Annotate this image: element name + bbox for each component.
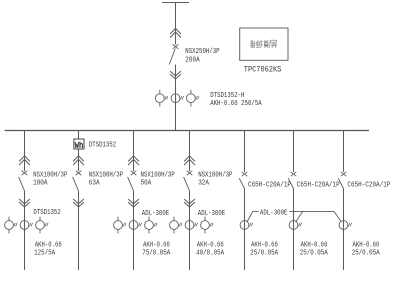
svg-text:C65H-C20A/1P: C65H-C20A/1P (347, 182, 390, 190)
svg-text:C65H-C20A/1P: C65H-C20A/1P (297, 182, 340, 190)
wire feeder lower (133, 191, 135, 270)
breaker blade (128, 177, 134, 191)
wire feeder drop x=189.5 upper (189, 130, 191, 171)
wire CT tap F7 (334, 211, 341, 221)
breaker blade (239, 178, 244, 188)
breaker contact cross (187, 171, 193, 175)
svg-text:NSX100H/3P: NSX100H/3P (141, 171, 176, 179)
svg-text:NSX100H/3P: NSX100H/3P (33, 171, 68, 179)
CT right (145, 221, 154, 230)
drawout contact upper (128, 156, 139, 162)
wire incomer upper (175, 3, 177, 45)
wire feeder lower (244, 189, 246, 271)
svg-text:NSX100H/3P: NSX100H/3P (89, 171, 124, 179)
svg-text:50A: 50A (141, 180, 152, 188)
svg-text:25/0.05A: 25/0.05A (250, 249, 278, 257)
wire feeder lower (78, 191, 80, 270)
svg-text:25/0.05A: 25/0.05A (300, 249, 328, 257)
drawout contact lower (128, 199, 139, 204)
CT right (incomer) (187, 94, 196, 103)
svg-text:ADL-300E: ADL-300E (260, 209, 288, 217)
svg-text:DTSD1352-H: DTSD1352-H (210, 92, 244, 100)
drawout contact upper (184, 156, 195, 162)
CT middle (incomer) (171, 94, 180, 103)
svg-text:200A: 200A (185, 56, 200, 64)
breaker contact cross (242, 172, 248, 176)
CT (289, 221, 298, 230)
node incoming supply terminal (162, 2, 189, 4)
wire feeder drop x=24.5 upper (24, 130, 26, 171)
CT (339, 221, 348, 230)
CT (240, 221, 249, 230)
svg-text:AKH-0.66: AKH-0.66 (143, 241, 170, 249)
svg-text:C65H-C20A/1P: C65H-C20A/1P (248, 182, 291, 190)
svg-text:25/0.05A: 25/0.05A (352, 249, 380, 257)
wire ADL meter link right (289, 210, 334, 212)
breaker contact cross (76, 171, 82, 175)
wire CT tap F5 (247, 211, 253, 222)
svg-text:AKH-0.66: AKH-0.66 (251, 241, 278, 249)
CT right (36, 221, 45, 230)
svg-text:100A: 100A (33, 180, 48, 188)
touch screen box (240, 28, 288, 60)
CT right (201, 221, 210, 230)
drawout contact upper (73, 156, 84, 162)
svg-text:ADL-300E: ADL-300E (142, 210, 170, 218)
svg-text:AKH-0.66: AKH-0.66 (197, 241, 224, 249)
CT middle (185, 221, 194, 230)
wire feeder lower (343, 189, 345, 271)
wire ADL meter link left (253, 210, 259, 212)
bus bar (5, 130, 369, 132)
wire feeder drop x=293.5 (293, 130, 295, 172)
breaker blade (184, 177, 190, 191)
breaker contact cross (291, 172, 297, 176)
drawout contact lower (incomer) (170, 71, 181, 76)
breaker blade (338, 178, 343, 188)
label touchscreen (CJK strokes) (251, 40, 277, 48)
CT left (114, 221, 123, 230)
CT left (5, 221, 14, 230)
energy meter icon DTSD1352 (74, 139, 84, 149)
breaker blade (19, 177, 25, 191)
svg-text:32A: 32A (198, 180, 209, 188)
wire feeder lower (24, 191, 26, 270)
CT left (170, 221, 179, 230)
svg-text:63A: 63A (89, 180, 100, 188)
breaker contact cross (341, 172, 347, 176)
svg-text:DTSD1352: DTSD1352 (33, 209, 60, 217)
wire feeder drop x=343.5 (343, 130, 345, 172)
breaker blade (288, 178, 293, 188)
svg-text:NSX100H/3P: NSX100H/3P (198, 171, 233, 179)
wire feeder drop x=78.5 upper (78, 130, 80, 171)
drawout contact lower (184, 199, 195, 204)
CT left (incomer) (155, 94, 164, 103)
drawout contact lower (19, 199, 30, 204)
CT middle (129, 221, 138, 230)
wire feeder drop x=244.5 (244, 130, 246, 172)
svg-text:75/0.05A: 75/0.05A (142, 249, 170, 257)
svg-text:AKH-0.66: AKH-0.66 (353, 241, 380, 249)
drawout contact upper (incomer) (170, 28, 181, 34)
breaker contact cross (131, 171, 137, 175)
svg-text:DTSD1352: DTSD1352 (89, 141, 116, 149)
svg-text:AKH-0.66: AKH-0.66 (301, 241, 328, 249)
breaker QF0 contact cross (173, 44, 179, 48)
wire feeder lower (293, 189, 295, 271)
wire feeder drop x=133.5 upper (133, 130, 135, 171)
svg-text:125/5A: 125/5A (34, 249, 55, 257)
CT middle (20, 221, 29, 230)
wire incomer mid (175, 65, 177, 131)
drawout contact upper (19, 156, 30, 162)
wire feeder lower (189, 191, 191, 270)
svg-text:AKH-0.66: AKH-0.66 (35, 241, 62, 249)
breaker blade (73, 177, 79, 191)
svg-text:NSX250H/3P: NSX250H/3P (185, 48, 220, 56)
svg-text:Wh: Wh (75, 141, 84, 151)
drawout contact lower (73, 199, 84, 204)
svg-text:AKH-0.66 250/5A: AKH-0.66 250/5A (210, 100, 262, 108)
wire CT tap F6 (296, 211, 303, 221)
svg-text:ADL-300E: ADL-300E (198, 210, 226, 218)
svg-text:40/0.05A: 40/0.05A (196, 249, 224, 257)
svg-text:TPC7062KS: TPC7062KS (244, 66, 282, 75)
breaker contact cross (22, 171, 28, 175)
breaker QF0 blade (169, 49, 175, 65)
